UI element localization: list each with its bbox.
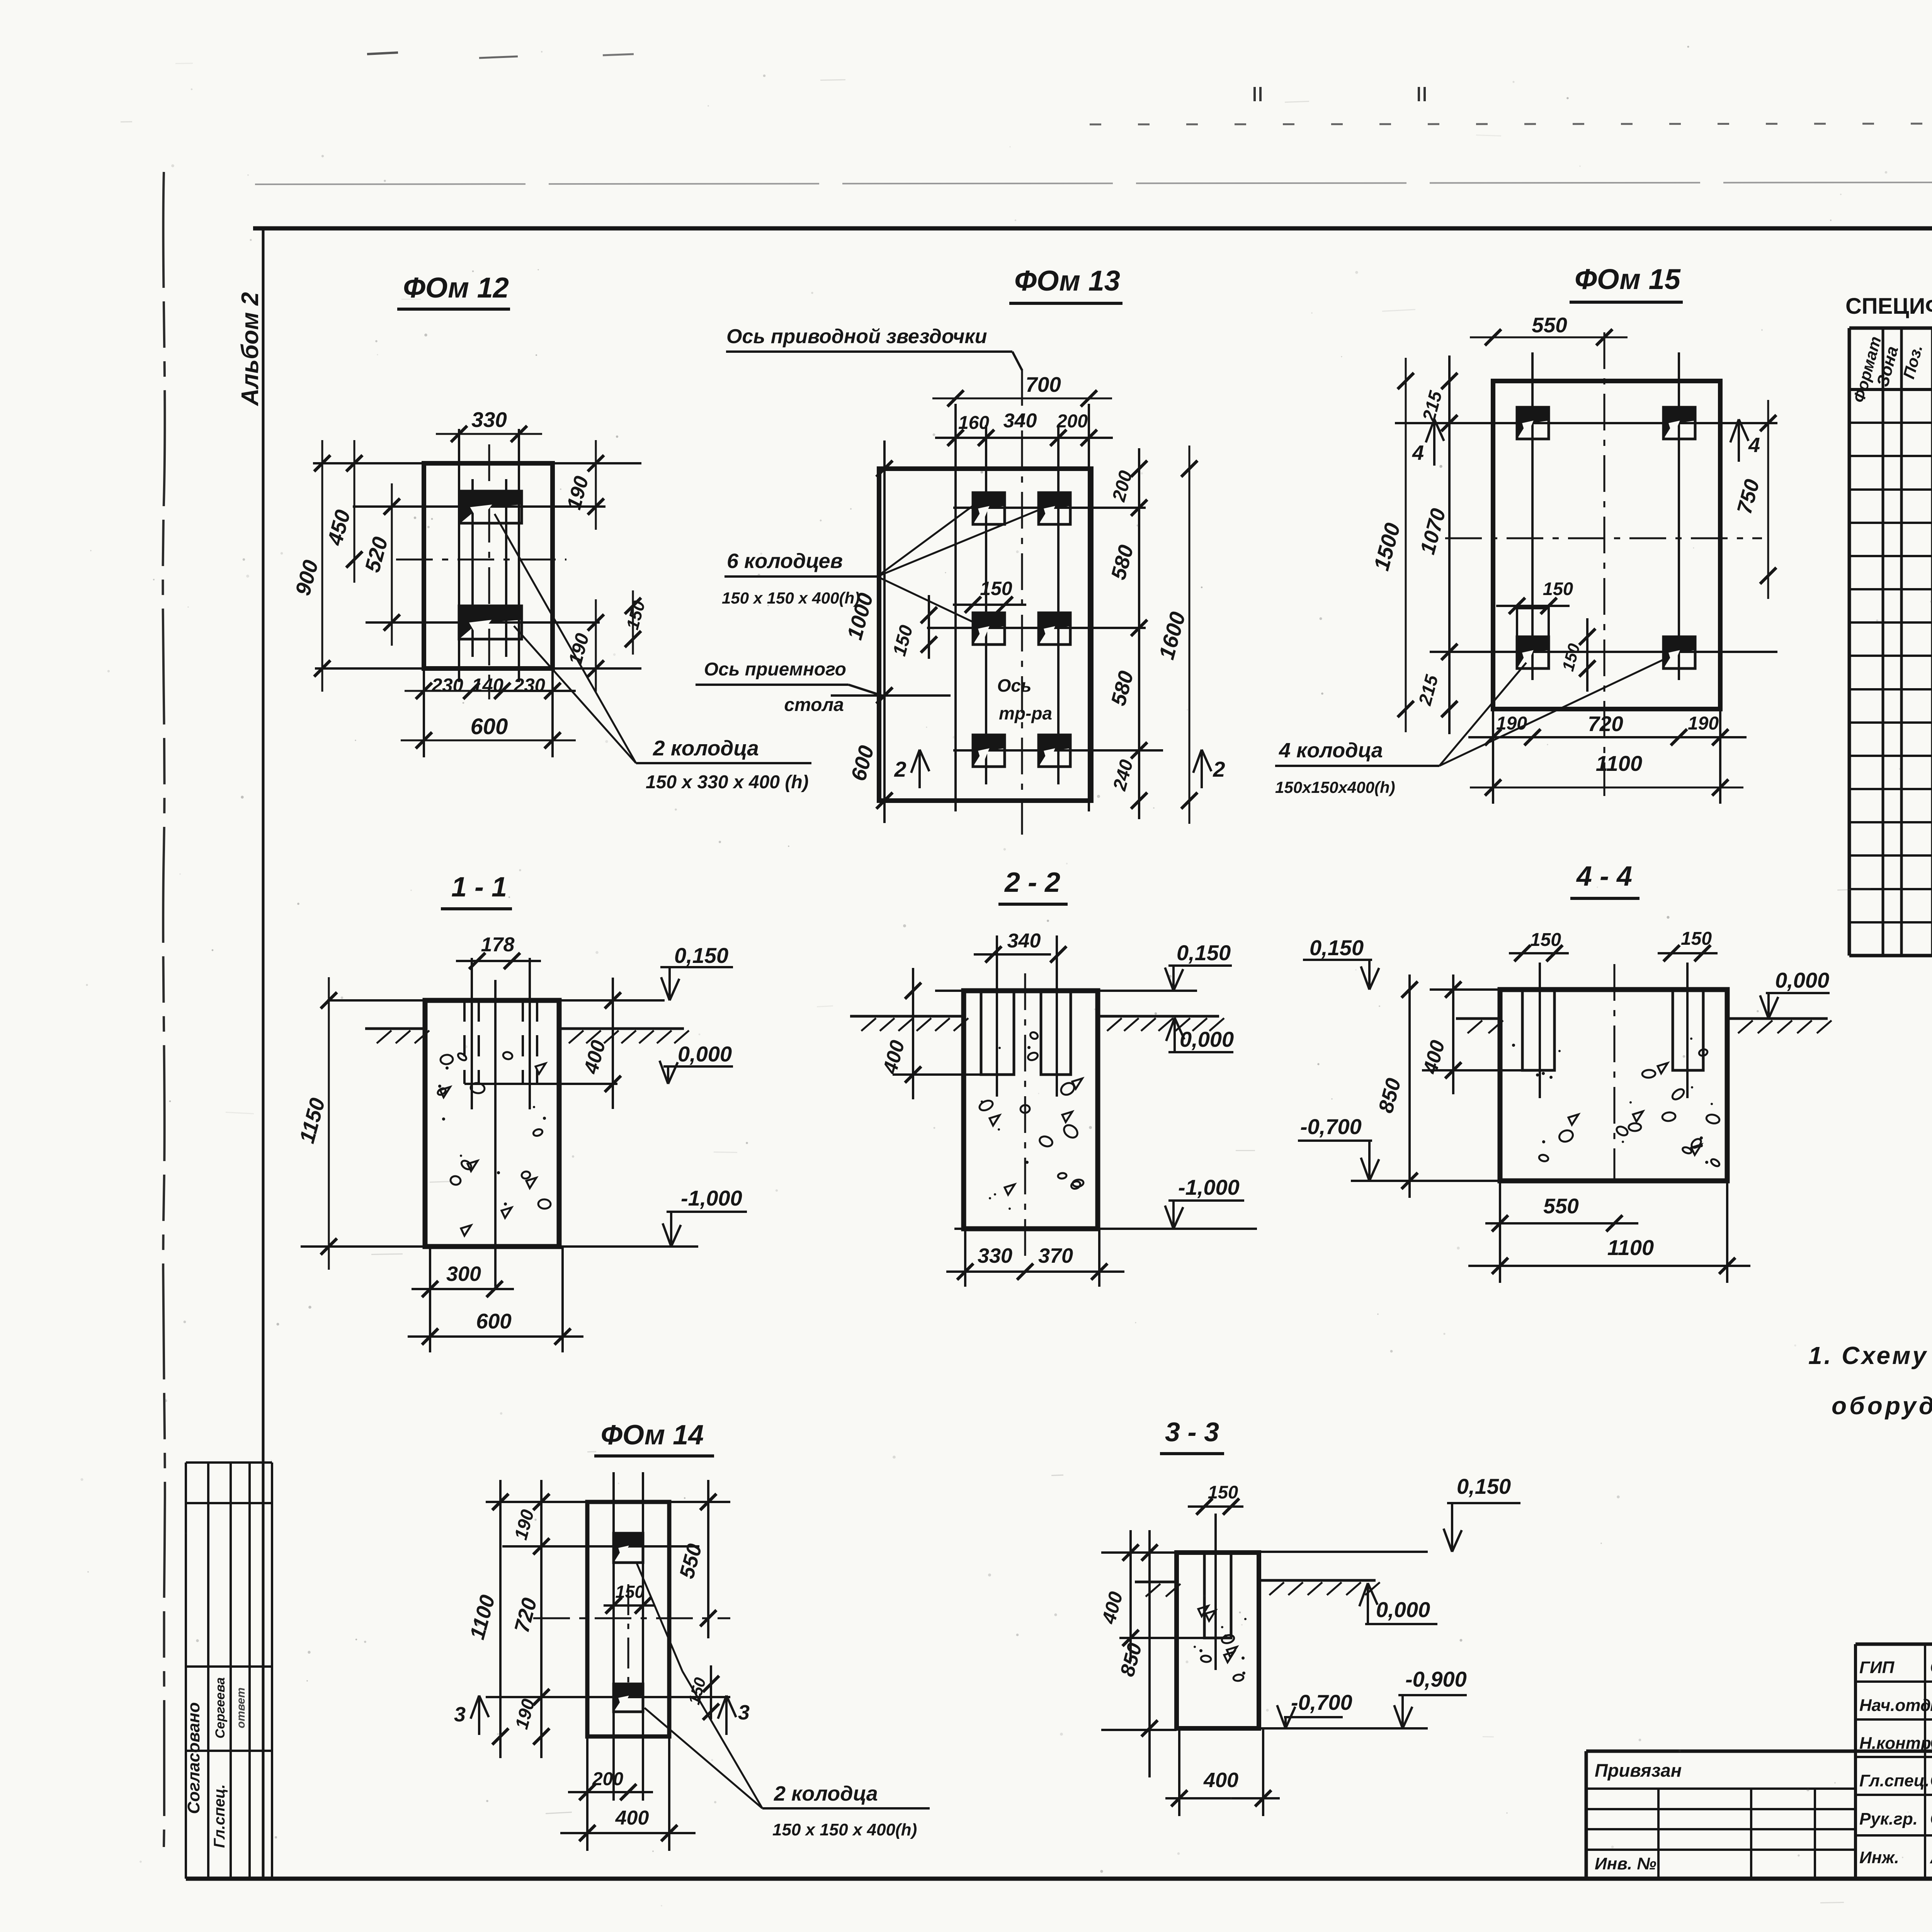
- section 3-3 body outline: [1177, 1553, 1259, 1728]
- svg-text:0,150: 0,150: [1177, 940, 1231, 965]
- svg-text:0,150: 0,150: [1457, 1474, 1511, 1498]
- svg-text:оборудование см. лист КЖ - 1: оборудование см. лист КЖ - 13,14.: [1832, 1392, 1932, 1420]
- svg-text:Нач.отд.: Нач.отд.: [1859, 1696, 1932, 1715]
- FOm13 vertical grid lines: [954, 404, 957, 811]
- svg-text:ФОм 15: ФОм 15: [1575, 263, 1681, 295]
- FOm12 well top (150x330): [460, 491, 522, 523]
- svg-text:400: 400: [615, 1807, 649, 1829]
- svg-text:-0,700: -0,700: [1300, 1114, 1362, 1139]
- section 4-4: [1298, 861, 1832, 1283]
- section 3-3 bottom extension line: [1101, 1729, 1177, 1731]
- svg-text:3: 3: [738, 1701, 750, 1724]
- svg-text:Альбом 2: Альбом 2: [237, 292, 264, 406]
- section 2-2 concrete texture: [1072, 1078, 1082, 1089]
- svg-text:-0,900: -0,900: [1405, 1667, 1467, 1691]
- section 3-3 anchor channel: [1204, 1553, 1231, 1638]
- svg-text:Сергеева: Сергеева: [213, 1677, 228, 1738]
- svg-text:370: 370: [1038, 1244, 1073, 1267]
- svg-text:150 х 150 х 400(h): 150 х 150 х 400(h): [722, 589, 860, 607]
- svg-text:150: 150: [1543, 578, 1573, 599]
- FOm15 outline: [1493, 381, 1720, 709]
- foundation plan FOm14: [454, 1420, 930, 1851]
- svg-text:150 х 330 х 400 (h): 150 х 330 х 400 (h): [646, 772, 809, 793]
- svg-text:4: 4: [1412, 441, 1424, 464]
- svg-text:330: 330: [471, 408, 507, 432]
- section 2-2 bolt axes: [996, 935, 998, 1097]
- svg-text:ответ: ответ: [235, 1687, 247, 1728]
- section 4-4 concrete texture: [1705, 1161, 1708, 1164]
- FOm13 outline: [879, 469, 1091, 801]
- section 1-1 bolt axes: [471, 958, 473, 1109]
- svg-text:Рогачев: Рогачев: [1930, 1695, 1932, 1715]
- FOm12 top edge extension line: [313, 462, 641, 464]
- svg-text:400: 400: [1203, 1769, 1238, 1792]
- svg-text:-1,000: -1,000: [681, 1186, 742, 1210]
- foundation plan FOm13: [696, 265, 1225, 835]
- svg-text:ФОм 14: ФОм 14: [601, 1420, 704, 1451]
- svg-text:Инв. №: Инв. №: [1595, 1854, 1656, 1873]
- section 1-1 concrete texture: [502, 1051, 513, 1060]
- svg-text:600: 600: [471, 714, 508, 739]
- section 4-4 bolt axes: [1539, 963, 1541, 1098]
- scan noise: small double ticks top: [1253, 87, 1256, 101]
- svg-text:2 - 2: 2 - 2: [1004, 867, 1060, 898]
- left extension grid: [1657, 1789, 1660, 1879]
- scan specks top-left: [367, 53, 398, 54]
- svg-text:0,150: 0,150: [674, 943, 728, 968]
- drawing frame: left border: [262, 228, 265, 1879]
- svg-text:Привязан: Привязан: [1595, 1760, 1682, 1781]
- svg-text:2: 2: [1213, 757, 1225, 781]
- svg-text:2 колодца: 2 колодца: [774, 1782, 878, 1805]
- section 2-2 top/bottom extension lines: [935, 990, 1197, 992]
- FOm13 wells 6x: [973, 493, 1005, 524]
- svg-text:3 - 3: 3 - 3: [1165, 1417, 1219, 1447]
- svg-text:4 колодца: 4 колодца: [1279, 739, 1383, 762]
- svg-text:2: 2: [894, 757, 906, 781]
- svg-text:200: 200: [1056, 411, 1088, 432]
- svg-text:Согласовано: Согласовано: [184, 1702, 203, 1814]
- FOm12 bottom edge extension line: [315, 667, 641, 670]
- svg-text:0,000: 0,000: [678, 1042, 732, 1066]
- svg-text:600: 600: [476, 1309, 512, 1333]
- svg-text:стола: стола: [784, 695, 844, 715]
- svg-text:Гл.спец.: Гл.спец.: [1859, 1771, 1929, 1790]
- svg-text:4: 4: [1748, 434, 1760, 457]
- FOm15 wells 4x: [1517, 407, 1549, 439]
- svg-text:330: 330: [978, 1244, 1012, 1267]
- svg-text:150: 150: [1530, 930, 1561, 950]
- FOm14 outline: [587, 1502, 669, 1736]
- svg-text:340: 340: [1007, 930, 1041, 952]
- svg-text:178: 178: [481, 934, 515, 956]
- svg-text:Артамонова: Артамонова: [1930, 1847, 1932, 1867]
- foundation plan FOm15: [1275, 263, 1777, 804]
- svg-text:300: 300: [446, 1262, 481, 1286]
- svg-text:Сергеева: Сергеева: [1930, 1770, 1932, 1790]
- scan noise: faint line above frame: [255, 182, 1932, 184]
- svg-text:0,150: 0,150: [1310, 935, 1364, 960]
- svg-text:СПЕЦИФИКАЦИЯ ЭЛЕМЕНТОВ МОНОЛИТ: СПЕЦИФИКАЦИЯ ЭЛЕМЕНТОВ МОНОЛИТНОЙ КОНСТР…: [1845, 294, 1932, 319]
- svg-text:Н.контр.: Н.контр.: [1859, 1734, 1932, 1753]
- svg-text:550: 550: [1543, 1194, 1579, 1218]
- scan speckle noise: [964, 333, 967, 335]
- section 3-3 bolt axis: [1214, 1514, 1217, 1670]
- FOm12 well bottom (150x330): [459, 606, 522, 639]
- svg-text:230: 230: [431, 675, 463, 696]
- section 4-4 body outline: [1500, 990, 1727, 1181]
- FOm12 outline: [424, 463, 553, 668]
- svg-text:0,000: 0,000: [1376, 1597, 1430, 1622]
- spec table row lines: [1849, 422, 1932, 424]
- svg-text:тр-ра: тр-ра: [999, 703, 1052, 723]
- svg-text:Сафина: Сафина: [1930, 1808, 1932, 1828]
- svg-text:2 колодца: 2 колодца: [653, 736, 759, 760]
- svg-text:200: 200: [592, 1769, 623, 1789]
- svg-text:Ось: Ось: [997, 675, 1032, 696]
- spec table outer/column lines: [1848, 328, 1851, 956]
- left stamp table: [184, 1463, 272, 1879]
- section 3-3: [1097, 1417, 1520, 1816]
- svg-text:ФОм 13: ФОм 13: [1014, 265, 1120, 297]
- FOm13 row axis lines: [953, 507, 1146, 509]
- svg-text:Инж.: Инж.: [1859, 1848, 1899, 1867]
- svg-text:6 колодцев: 6 колодцев: [727, 549, 843, 573]
- section 1-1: [294, 872, 747, 1352]
- title block outer lines: [1855, 1643, 1932, 1646]
- svg-text:ГИП: ГИП: [1859, 1658, 1895, 1677]
- section 4-4 top extension lines: [1430, 988, 1500, 991]
- svg-text:1. Схему расположения фундам: 1. Схему расположения фундаментов под: [1808, 1342, 1932, 1369]
- scan noise: top dotted line: [1090, 123, 1932, 124]
- drawing frame: top border: [253, 226, 1932, 231]
- svg-text:700: 700: [1026, 372, 1061, 396]
- foundation plan FOm12: [291, 272, 811, 793]
- section 1-1 top/bottom extension lines: [327, 999, 665, 1002]
- FOm14 row axis lines: [502, 1545, 699, 1548]
- specification table: [1845, 294, 1932, 956]
- svg-text:Рук.гр.: Рук.гр.: [1859, 1810, 1918, 1828]
- svg-text:0,000: 0,000: [1775, 968, 1829, 992]
- FOm14 wells 2x: [614, 1533, 643, 1563]
- svg-text:190: 190: [1688, 713, 1719, 734]
- FOm15 small well outline box: [1517, 608, 1549, 668]
- svg-text:550: 550: [1532, 313, 1567, 337]
- FOm12 vertical grid lines: [458, 429, 460, 682]
- section 2-2 body outline: [964, 991, 1098, 1229]
- svg-text:Ось приводной звездочки: Ось приводной звездочки: [726, 325, 987, 348]
- section 3-3 concrete texture: [1244, 1618, 1247, 1620]
- svg-text:Сергеева: Сергеева: [1930, 1657, 1932, 1677]
- FOm15 horizontal axes: [1395, 422, 1777, 424]
- FOm12 row axis lines: [353, 505, 605, 508]
- svg-text:150: 150: [980, 578, 1012, 599]
- section 1-1 anchor channels dashed: [463, 1000, 466, 1084]
- svg-text:1 - 1: 1 - 1: [451, 872, 507, 903]
- svg-text:-0,700: -0,700: [1291, 1690, 1352, 1714]
- svg-text:1100: 1100: [1607, 1235, 1654, 1260]
- scan noise: left wavy edge line: [163, 172, 165, 1847]
- svg-text:-1,000: -1,000: [1178, 1175, 1240, 1199]
- FOm13 receiving table axis: [831, 694, 951, 697]
- svg-text:4 - 4: 4 - 4: [1576, 861, 1632, 892]
- svg-text:Сергеева: Сергеева: [1930, 1733, 1932, 1753]
- svg-text:150 х 150 х 400(h): 150 х 150 х 400(h): [772, 1820, 917, 1839]
- section 2-2 ground line: [850, 1015, 964, 1018]
- FOm14 top edge dim line: [486, 1501, 730, 1503]
- svg-text:0,000: 0,000: [1180, 1027, 1234, 1051]
- svg-text:150: 150: [1681, 929, 1712, 949]
- svg-text:720: 720: [1588, 712, 1623, 736]
- section 3-3 top extension line: [1101, 1551, 1177, 1554]
- section 3-3 ground line: [1135, 1581, 1177, 1583]
- section 1-1 body outline: [425, 1000, 559, 1247]
- svg-text:340: 340: [1003, 410, 1037, 432]
- section 1-1 ground line: [365, 1027, 425, 1030]
- FOm15 vertical axes: [1531, 352, 1534, 680]
- section 2-2: [850, 867, 1257, 1287]
- section 4-4 anchor channels: [1522, 990, 1554, 1070]
- section 2-2 anchor channels: [981, 991, 1014, 1075]
- svg-text:230: 230: [513, 675, 545, 696]
- svg-text:150х150х400(h): 150х150х400(h): [1275, 778, 1395, 796]
- svg-text:3: 3: [454, 1703, 466, 1726]
- section 4-4 ground line: [1456, 1017, 1500, 1020]
- svg-text:1100: 1100: [1596, 751, 1642, 776]
- staff table grid: [1924, 1644, 1926, 1879]
- FOm14 vertical grid lines: [612, 1472, 615, 1801]
- title block: [1586, 1644, 1932, 1914]
- svg-text:Гл.спец.: Гл.спец.: [211, 1784, 228, 1848]
- svg-text:Ось приемного: Ось приемного: [704, 659, 846, 680]
- drawing frame: bottom border: [186, 1877, 1932, 1881]
